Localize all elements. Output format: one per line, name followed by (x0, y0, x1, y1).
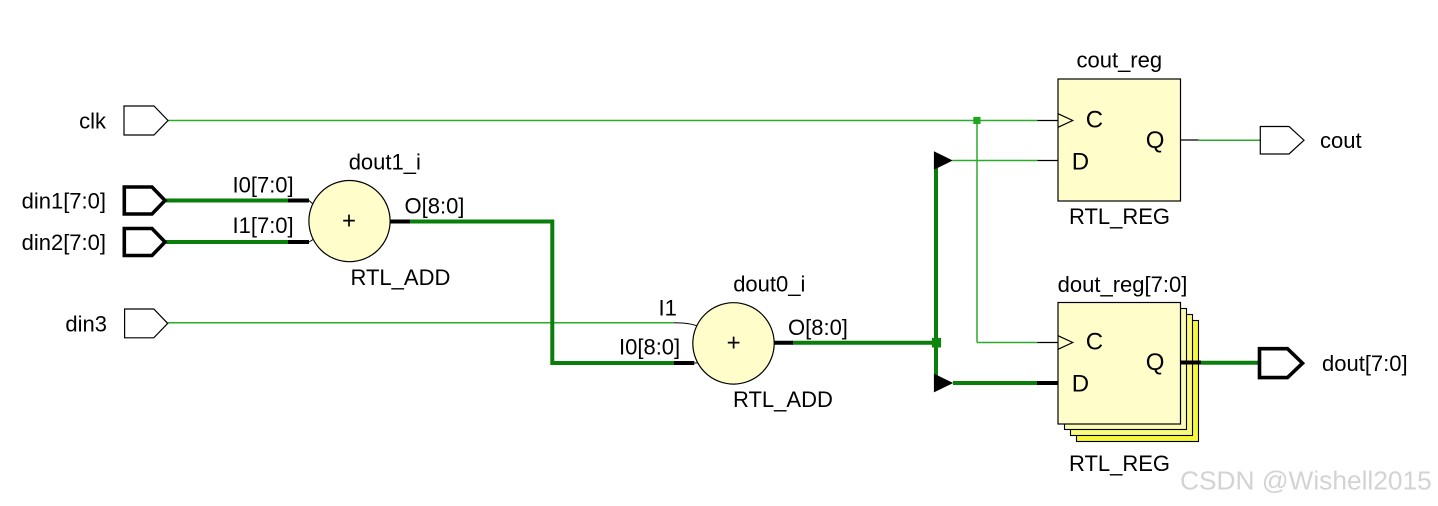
wire dout0_i O[8:0] bus (792, 341, 936, 345)
pin lead dout0_i I1 (674, 323, 698, 327)
wire dout_reg Q bus to dout port (1201, 361, 1261, 365)
bus tap arrow to cout_reg D (934, 151, 953, 169)
wire din2 bus (166, 240, 288, 244)
wire cout_reg D net (953, 160, 1038, 162)
svg-text:D: D (1072, 371, 1089, 398)
output port cout (1260, 127, 1304, 155)
pin lead dout1_i I1 (309, 239, 314, 242)
clock triangle dout_reg (1058, 336, 1073, 350)
svg-text:C: C (1086, 106, 1103, 133)
register dout_reg stack layer 1 (1065, 309, 1187, 430)
bus tap arrow to dout_reg D (934, 374, 953, 393)
pin stub cout_reg C (1038, 120, 1059, 122)
svg-text:I1: I1 (659, 295, 677, 320)
register dout_reg stack layer 3 (1077, 321, 1199, 442)
svg-text:+: + (342, 207, 356, 234)
svg-text:dout[7:0]: dout[7:0] (1322, 351, 1408, 376)
wire clk net horizontal (168, 120, 1038, 122)
svg-text:I1[7:0]: I1[7:0] (233, 213, 294, 238)
pin stub cout_reg D (1038, 160, 1059, 162)
pin stub dout0_i I0 (674, 361, 694, 365)
svg-text:clk: clk (79, 109, 107, 134)
wire dout_reg D bus (953, 381, 1038, 385)
svg-text:din2[7:0]: din2[7:0] (22, 230, 106, 255)
wire clk net vertical drop (976, 121, 978, 343)
pin lead dout0_i I0 (694, 362, 698, 364)
svg-text:din3: din3 (65, 311, 107, 336)
adder U1 dout1_i body (309, 181, 390, 262)
wire O[8:0] vertical bus (934, 154, 938, 379)
pin lead dout1_i I0 (309, 201, 313, 205)
svg-text:cout_reg: cout_reg (1076, 48, 1162, 73)
junction clk net (973, 117, 980, 124)
pin stub dout1_i I1 (288, 240, 309, 244)
svg-text:dout_reg[7:0]: dout_reg[7:0] (1058, 272, 1188, 297)
svg-text:dout0_i: dout0_i (733, 272, 805, 297)
pin stub dout1_i O (390, 220, 410, 224)
svg-text:cout: cout (1320, 128, 1362, 153)
wire cout_reg Q to cout port (1198, 139, 1260, 141)
pin stub dout_reg D (1037, 381, 1059, 385)
register dout_reg body (1058, 303, 1181, 425)
pin stub cout_reg Q (1179, 139, 1198, 141)
pin stub dout0_i O (775, 341, 794, 345)
register dout_reg stack layer 2 (1071, 315, 1193, 436)
output port dout[7:0] (1260, 349, 1303, 378)
svg-text:RTL_REG: RTL_REG (1069, 204, 1170, 229)
svg-text:RTL_ADD: RTL_ADD (351, 265, 451, 290)
junction O[8:0] bus (932, 338, 941, 348)
pin stub dout_reg C (1038, 342, 1059, 344)
wire clk net to dout_reg C (977, 342, 1038, 344)
svg-text:RTL_REG: RTL_REG (1069, 451, 1170, 476)
pin stub dout_reg Q (1181, 361, 1202, 365)
wire din1 bus (166, 199, 288, 203)
svg-text:RTL_ADD: RTL_ADD (733, 387, 833, 412)
svg-text:C: C (1086, 328, 1103, 355)
input port din2[7:0] (124, 229, 165, 256)
adder U2 dout0_i body (693, 303, 774, 384)
wire dout1_i O[8:0] bus to dout0_i I0 (410, 222, 674, 364)
input port din3 (125, 309, 168, 338)
svg-text:D: D (1072, 149, 1089, 176)
svg-text:Q: Q (1146, 127, 1165, 154)
input port din1[7:0] (124, 187, 165, 214)
svg-text:O[8:0]: O[8:0] (788, 315, 848, 340)
clock triangle cout_reg (1058, 114, 1073, 128)
svg-text:O[8:0]: O[8:0] (405, 194, 465, 219)
svg-text:I0[8:0]: I0[8:0] (619, 335, 680, 360)
wire din3 net (168, 322, 674, 324)
svg-text:dout1_i: dout1_i (349, 150, 421, 175)
svg-text:Q: Q (1146, 349, 1165, 376)
pin stub dout1_i I0 (288, 199, 309, 203)
svg-text:I0[7:0]: I0[7:0] (233, 173, 294, 198)
svg-text:CSDN @Wishell2015: CSDN @Wishell2015 (1180, 466, 1432, 496)
register cout_reg body (1058, 79, 1181, 201)
svg-text:+: + (727, 329, 741, 356)
input port clk (124, 106, 168, 135)
svg-text:din1[7:0]: din1[7:0] (22, 189, 106, 214)
